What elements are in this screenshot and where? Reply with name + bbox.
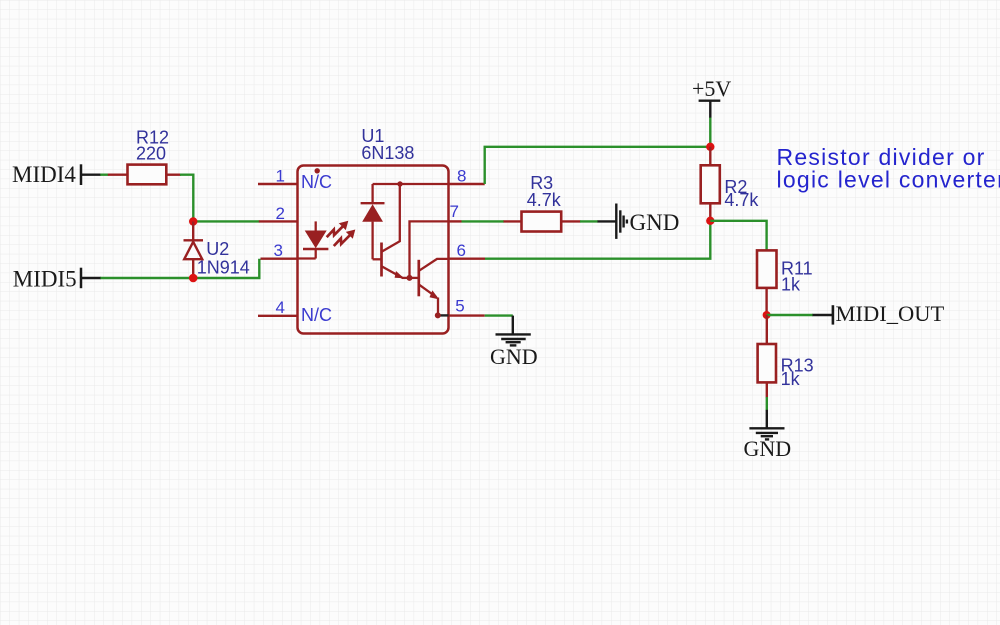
- resistor R3: [504, 173, 581, 231]
- svg-text:4.7k: 4.7k: [724, 190, 759, 210]
- resistor R11: [757, 250, 813, 315]
- wire MIDI5 to bend, up to U1 pin3: [101, 259, 260, 278]
- svg-text:N/C: N/C: [301, 305, 332, 325]
- pin 7 stub: [449, 220, 462, 222]
- ground GND (below U1 pin5): [490, 334, 538, 369]
- svg-text:GND: GND: [630, 210, 680, 235]
- wire R3 to GND port: [580, 220, 598, 222]
- wire MIDI4 to R12: [100, 173, 108, 175]
- svg-text:MIDI4: MIDI4: [12, 162, 76, 187]
- svg-text:U2: U2: [206, 239, 229, 259]
- pin 3 stub: [261, 258, 298, 260]
- wire pin8 up and across to +5V rail: [485, 147, 711, 184]
- junction node A2: [189, 274, 198, 283]
- pin 8 stub: [449, 183, 485, 185]
- net label MIDI_OUT: [833, 301, 945, 326]
- svg-text:7: 7: [450, 202, 459, 221]
- svg-text:1: 1: [276, 166, 285, 185]
- net label MIDI5: [13, 266, 81, 291]
- junction node A (+5V rail): [706, 143, 714, 151]
- ground GND (below R13): [744, 428, 792, 461]
- wire node B right and down to R11: [710, 221, 766, 251]
- transistor Q1 (input darlington): [382, 184, 410, 278]
- internal junction pin8 rail: [397, 181, 402, 186]
- junction node A1: [189, 217, 197, 225]
- svg-text:1N914: 1N914: [197, 257, 250, 277]
- resistor R2: [701, 147, 760, 221]
- wire node C to MIDI_OUT label: [767, 314, 813, 316]
- svg-text:1k: 1k: [781, 369, 801, 389]
- internal top rail pin8: [373, 183, 449, 185]
- svg-text:GND: GND: [490, 344, 538, 369]
- net label MIDI4: [12, 162, 81, 187]
- annotation text: [777, 144, 1000, 193]
- op-amp U1 6N138 body: [298, 126, 449, 333]
- svg-text:N/C: N/C: [301, 172, 332, 192]
- wire pin6 across and up to node B: [485, 221, 710, 259]
- svg-text:+5V: +5V: [692, 76, 731, 101]
- junction node C (MIDI_OUT): [763, 311, 771, 319]
- pin 1 marker dot: [315, 168, 320, 173]
- light arrow 2: [334, 230, 356, 247]
- pin 1 stub: [258, 183, 298, 185]
- wire pin7 to R3: [462, 220, 505, 222]
- junction node B (below R2): [706, 217, 714, 225]
- wire R12 out, bend down to node A1: [180, 175, 193, 222]
- internal junction emitter pin5: [435, 312, 441, 318]
- ground GND (rotated, after R3): [616, 204, 679, 239]
- resistor R12: [108, 127, 181, 184]
- wire MIDI5 black lead: [81, 277, 101, 279]
- resistor R13: [758, 315, 814, 398]
- light arrow 1: [327, 221, 349, 237]
- svg-text:6: 6: [457, 241, 466, 260]
- pin 5 stub: [449, 314, 485, 316]
- pin 2 stub: [259, 220, 298, 222]
- internal pin7 line down to base node: [410, 221, 449, 278]
- wire +5V down to node A: [709, 118, 711, 147]
- svg-text:GND: GND: [744, 436, 792, 461]
- svg-text:1k: 1k: [781, 275, 801, 295]
- wire MIDI4 black lead: [81, 173, 101, 175]
- wire node A1 to U1 pin2: [193, 220, 259, 222]
- svg-text:5: 5: [455, 297, 464, 316]
- svg-text:MIDI_OUT: MIDI_OUT: [836, 301, 945, 326]
- pin 4 stub: [258, 315, 298, 317]
- pin 6 stub: [449, 258, 486, 260]
- transistor Q2 (output darlington): [410, 259, 449, 316]
- svg-text:220: 220: [136, 144, 166, 164]
- power +5V: [692, 76, 731, 118]
- svg-text:2: 2: [276, 204, 285, 223]
- svg-text:4: 4: [276, 298, 285, 317]
- svg-text:6N138: 6N138: [361, 143, 414, 163]
- wire pin5 to ground: [485, 314, 513, 316]
- internal junction base node: [407, 275, 413, 281]
- internal photodiode: [361, 184, 385, 259]
- wire R13 to ground: [766, 397, 768, 410]
- svg-text:logic level converter: logic level converter: [777, 167, 1000, 193]
- svg-text:MIDI5: MIDI5: [13, 266, 77, 291]
- svg-text:3: 3: [274, 241, 283, 260]
- diode U2 1N914: [184, 222, 250, 279]
- LED emitter inside U1: [298, 221, 329, 258]
- svg-text:4.7k: 4.7k: [527, 190, 562, 210]
- svg-text:8: 8: [457, 166, 466, 185]
